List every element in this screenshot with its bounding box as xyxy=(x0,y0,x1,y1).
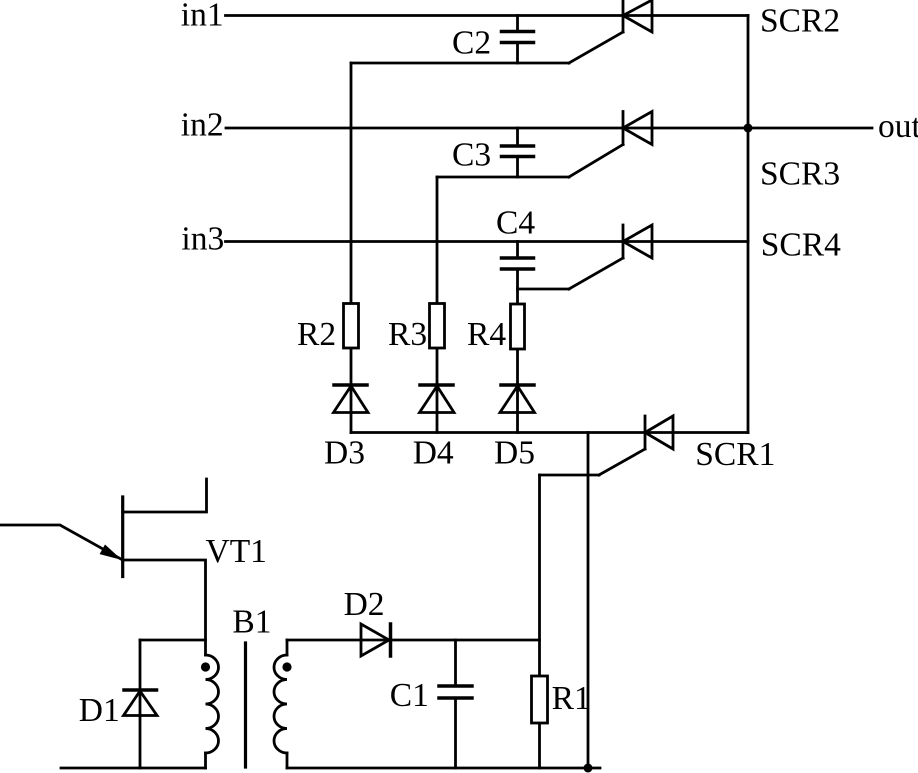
wire secondary top stub xyxy=(286,640,289,655)
svg-text:B1: B1 xyxy=(232,604,271,641)
diode D5 xyxy=(500,385,535,413)
svg-text:SCR4: SCR4 xyxy=(761,227,841,264)
svg-text:SCR1: SCR1 xyxy=(695,436,775,473)
transformer B1 primary winding xyxy=(206,655,219,753)
wire D1 branch vertical xyxy=(139,640,142,768)
node secondary polarity dot xyxy=(282,662,291,671)
thyristor SCR4 xyxy=(623,225,652,258)
wire D1 top horizontal xyxy=(140,639,206,642)
svg-text:C2: C2 xyxy=(452,25,491,62)
transformer B1 secondary winding xyxy=(274,655,287,753)
wire bottom SCR bus xyxy=(351,431,748,434)
diode D2 xyxy=(361,624,391,656)
wire secondary top horizontal xyxy=(287,639,540,642)
wire in3 xyxy=(226,240,749,243)
svg-text:R1: R1 xyxy=(552,680,591,717)
capacitor C2 xyxy=(502,16,534,64)
wire R3 branch vertical xyxy=(436,177,439,433)
VT1 emitter arrowhead xyxy=(100,545,122,561)
svg-text:C3: C3 xyxy=(452,137,491,174)
svg-text:D2: D2 xyxy=(344,586,385,623)
thyristor SCR2 xyxy=(623,0,652,32)
wire SCR2 gate horizontal xyxy=(351,62,569,65)
svg-text:R3: R3 xyxy=(388,316,427,353)
thyristor SCR1 xyxy=(645,416,673,449)
wire SCR2 gate diagonal xyxy=(569,32,623,63)
svg-text:SCR2: SCR2 xyxy=(760,3,840,40)
diode D4 xyxy=(420,385,455,413)
svg-text:D4: D4 xyxy=(413,435,454,472)
wire bottom bus left xyxy=(61,767,206,770)
node primary polarity dot xyxy=(201,662,210,671)
diode D1 xyxy=(124,690,158,716)
wire SCR1 gate horizontal xyxy=(540,474,600,477)
wire SCR4 gate diagonal xyxy=(569,258,623,289)
resistor R1 xyxy=(532,676,548,723)
svg-text:out: out xyxy=(878,108,918,145)
wire VT1 base2 lead xyxy=(123,479,207,512)
wire SCR3 gate horizontal xyxy=(437,176,569,179)
svg-text:D3: D3 xyxy=(324,435,365,472)
resistor R2 xyxy=(344,304,359,349)
svg-text:in1: in1 xyxy=(181,0,224,34)
diode D3 xyxy=(334,385,369,413)
svg-text:D1: D1 xyxy=(79,692,120,729)
wire in1 xyxy=(226,14,749,17)
wire SCR4 gate horizontal xyxy=(518,288,570,291)
wire in2 / out line xyxy=(226,127,872,130)
resistor R4 xyxy=(511,304,525,349)
wire SCR3 gate diagonal xyxy=(569,145,623,178)
wire SCR1 gate diagonal xyxy=(599,449,645,475)
svg-text:D5: D5 xyxy=(494,435,535,472)
wire R2 branch vertical xyxy=(350,63,353,433)
wire secondary bottom stub xyxy=(286,753,289,768)
svg-text:in3: in3 xyxy=(181,221,224,258)
svg-text:VT1: VT1 xyxy=(206,533,267,570)
node out junction dot xyxy=(744,124,753,133)
capacitor C1 xyxy=(439,640,472,768)
capacitor C3 xyxy=(502,128,534,177)
transformer B1 core xyxy=(244,643,247,767)
wire VT1 base1 lead xyxy=(123,560,206,655)
wire VT1 emitter lead xyxy=(0,525,123,560)
svg-text:SCR3: SCR3 xyxy=(760,156,840,193)
wire R1 branch vertical xyxy=(538,475,541,768)
wire primary bottom stub xyxy=(204,753,207,768)
capacitor C4 xyxy=(502,242,534,290)
svg-text:R4: R4 xyxy=(467,316,506,353)
transistor VT1 bar xyxy=(121,497,124,577)
resistor R3 xyxy=(430,304,445,349)
wire right bus vertical xyxy=(747,16,750,433)
wire anode branch vertical xyxy=(587,433,590,769)
thyristor SCR3 xyxy=(623,112,652,145)
svg-text:C1: C1 xyxy=(390,677,429,714)
svg-text:R2: R2 xyxy=(297,316,336,353)
wire bottom bus right xyxy=(287,767,600,770)
svg-text:in2: in2 xyxy=(181,107,224,144)
svg-text:C4: C4 xyxy=(496,205,535,242)
wire R4 branch vertical xyxy=(516,289,519,433)
node bottom junction dot xyxy=(584,764,593,773)
